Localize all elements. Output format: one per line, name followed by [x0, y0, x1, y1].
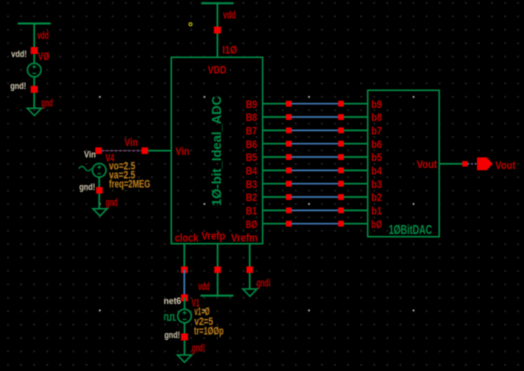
ADC instance I10 body	[171, 57, 262, 243]
wire Vrefp from ADC	[217, 244, 219, 296]
wire B8 bus segment	[291, 116, 338, 118]
svg-text:b7: b7	[371, 125, 382, 137]
svg-text:BØ: BØ	[246, 219, 258, 231]
pin square V1 minus	[181, 333, 188, 340]
junction square B9 right	[338, 101, 344, 107]
wire V0 minus to ground	[33, 77, 35, 109]
wire B4 bus segment	[291, 169, 338, 171]
svg-text:net6: net6	[164, 296, 182, 306]
svg-text:B3: B3	[246, 179, 258, 191]
svg-text:vdd: vdd	[223, 9, 236, 21]
svg-text:B1: B1	[246, 205, 258, 217]
svg-text:gnd!: gnd!	[79, 182, 95, 192]
svg-text:Vrefp: Vrefp	[201, 231, 225, 243]
svg-text:b3: b3	[371, 179, 382, 191]
pin square ADC VDD	[214, 27, 221, 34]
wire B1 bus segment	[291, 209, 338, 211]
stray yellow marker dot	[189, 23, 192, 26]
wire Vout from DAC	[439, 163, 462, 165]
wire B0 from ADC	[263, 223, 287, 225]
ground symbol (V0)	[27, 108, 41, 115]
wire Vout pin stub (dotted)	[468, 163, 478, 165]
wire B2 bus segment	[291, 196, 338, 198]
wire B0 bus segment	[291, 223, 338, 225]
junction square clock	[181, 266, 188, 273]
junction square B8 right	[338, 114, 344, 120]
svg-text:vdd: vdd	[37, 30, 49, 42]
wire B4 from ADC	[263, 169, 287, 171]
junction square B7 left	[286, 127, 292, 133]
wire V1 plus to source	[184, 298, 186, 310]
svg-text:I1Ø: I1Ø	[222, 45, 237, 57]
junction square B5 right	[338, 154, 344, 160]
svg-text:tr=1ØØp: tr=1ØØp	[194, 326, 224, 338]
svg-text:b5: b5	[371, 152, 382, 164]
wire B2 from ADC	[263, 196, 287, 198]
svg-text:B6: B6	[246, 139, 258, 151]
junction square B0 right	[338, 221, 344, 227]
wire b1 to DAC	[344, 209, 368, 211]
svg-text:Vrefm: Vrefm	[231, 233, 258, 245]
svg-text:bØ: bØ	[371, 219, 382, 231]
svg-text:B2: B2	[246, 192, 258, 204]
junction square B2 left	[286, 194, 292, 200]
junction square Vrefp	[214, 266, 221, 273]
wire B7 bus segment	[291, 129, 338, 131]
svg-text:clock: clock	[175, 233, 200, 245]
output pin symbol Vout	[478, 158, 493, 170]
svg-text:b9: b9	[371, 99, 382, 111]
svg-text:b6: b6	[371, 139, 382, 151]
svg-text:b4: b4	[371, 165, 382, 177]
wire b3 to DAC	[344, 183, 368, 185]
wire B7 from ADC	[263, 129, 287, 131]
svg-text:B7: B7	[246, 125, 258, 137]
junction square B6 right	[338, 141, 344, 147]
power symbol vdd (Vrefp)	[201, 295, 234, 297]
wire b8 to DAC	[344, 116, 368, 118]
junction square B9 left	[286, 101, 292, 107]
wire B6 from ADC	[263, 143, 287, 145]
svg-text:b8: b8	[371, 112, 382, 124]
junction square B3 left	[286, 181, 292, 187]
wire Vin dashed segment	[102, 150, 142, 152]
ground symbol (Vrefm)	[243, 289, 257, 296]
wire B3 bus segment	[291, 183, 338, 185]
svg-text:VØ: VØ	[38, 51, 50, 63]
wire B8 from ADC	[263, 116, 287, 118]
sine symbol (V4)	[79, 166, 91, 170]
junction square B5 left	[286, 154, 292, 160]
svg-text:freq=2MEG: freq=2MEG	[109, 179, 150, 191]
wire Vrefm from ADC	[249, 244, 251, 289]
voltage source V4	[92, 164, 106, 178]
junction square B2 right	[338, 194, 344, 200]
voltage source V0	[27, 63, 41, 77]
svg-text:b2: b2	[371, 192, 382, 204]
wire B5 from ADC	[263, 156, 287, 158]
wire V1 minus to ground	[184, 323, 186, 355]
svg-text:Vin: Vin	[124, 137, 138, 149]
svg-text:B5: B5	[246, 152, 258, 164]
svg-text:gnd!: gnd!	[10, 81, 26, 91]
wire b2 to DAC	[344, 196, 368, 198]
svg-text:1ØBitDAC: 1ØBitDAC	[389, 222, 433, 237]
svg-text:vdd: vdd	[198, 281, 210, 293]
junction square B8 left	[286, 114, 292, 120]
svg-text:gnd: gnd	[41, 97, 52, 109]
wire b7 to DAC	[344, 129, 368, 131]
svg-text:Vout: Vout	[417, 159, 438, 171]
ground symbol (V1)	[177, 355, 191, 362]
wire B6 bus segment	[291, 143, 338, 145]
junction square B4 right	[338, 167, 344, 173]
wire V4 minus to ground	[98, 177, 100, 209]
svg-text:Vout: Vout	[495, 160, 515, 172]
pulse source V1	[178, 309, 192, 323]
junction square Vrefm	[246, 266, 253, 273]
svg-text:Vin: Vin	[176, 146, 190, 158]
wire B1 from ADC	[263, 209, 287, 211]
junction square B3 right	[338, 181, 344, 187]
svg-text:gnd!: gnd!	[192, 343, 205, 355]
svg-text:B9: B9	[246, 99, 258, 111]
svg-text:gnd: gnd	[106, 197, 118, 209]
svg-text:gnd!: gnd!	[164, 330, 180, 340]
svg-text:Vin: Vin	[84, 150, 96, 160]
wire clock from ADC	[183, 244, 185, 270]
svg-text:B8: B8	[246, 112, 258, 124]
wire b9 to DAC	[344, 103, 368, 105]
pin square V4 plus	[95, 147, 102, 154]
junction square B1 left	[286, 207, 292, 213]
junction square B1 right	[338, 207, 344, 213]
wire B9 bus segment	[291, 103, 338, 105]
svg-text:B4: B4	[246, 165, 258, 177]
junction square B6 left	[286, 141, 292, 147]
wire b4 to DAC	[344, 169, 368, 171]
wire vdd bar to V0 plus	[33, 24, 35, 64]
wire Vin to ADC	[148, 150, 171, 152]
wire vdd to ADC VDD pin	[216, 3, 218, 57]
svg-text:VDD: VDD	[208, 65, 227, 77]
wire B5 bus segment	[291, 156, 338, 158]
wire b5 to DAC	[344, 156, 368, 158]
pin square V1 plus	[181, 294, 188, 301]
svg-text:1Ø-bit_Ideal_ADC: 1Ø-bit_Ideal_ADC	[209, 95, 224, 206]
wire B9 from ADC	[263, 103, 287, 105]
pin square V0 plus	[31, 47, 38, 54]
junction square B7 right	[338, 127, 344, 133]
junction square B4 left	[286, 167, 292, 173]
major grid dots	[99, 96, 414, 311]
svg-text:gnd!: gnd!	[257, 278, 271, 290]
junction square B0 left	[286, 221, 292, 227]
svg-text:b1: b1	[371, 205, 382, 217]
junction square Vin	[142, 147, 149, 154]
wire net6 (blue)	[183, 270, 185, 298]
power symbol vdd (V0)	[18, 23, 51, 25]
DAC instance body (10BitDAC)	[368, 90, 440, 236]
wire b6 to DAC	[344, 143, 368, 145]
wire b0 to DAC	[344, 223, 368, 225]
pin square V0 minus	[31, 86, 38, 93]
junction square Vout	[462, 161, 467, 166]
power symbol vdd (I10 VDD)	[201, 2, 234, 4]
wire B3 from ADC	[263, 183, 287, 185]
pin square V4 minus	[96, 187, 103, 194]
svg-text:vdd!: vdd!	[11, 49, 27, 59]
ground symbol (V4)	[93, 209, 107, 216]
pulse symbol (V1)	[165, 315, 176, 321]
